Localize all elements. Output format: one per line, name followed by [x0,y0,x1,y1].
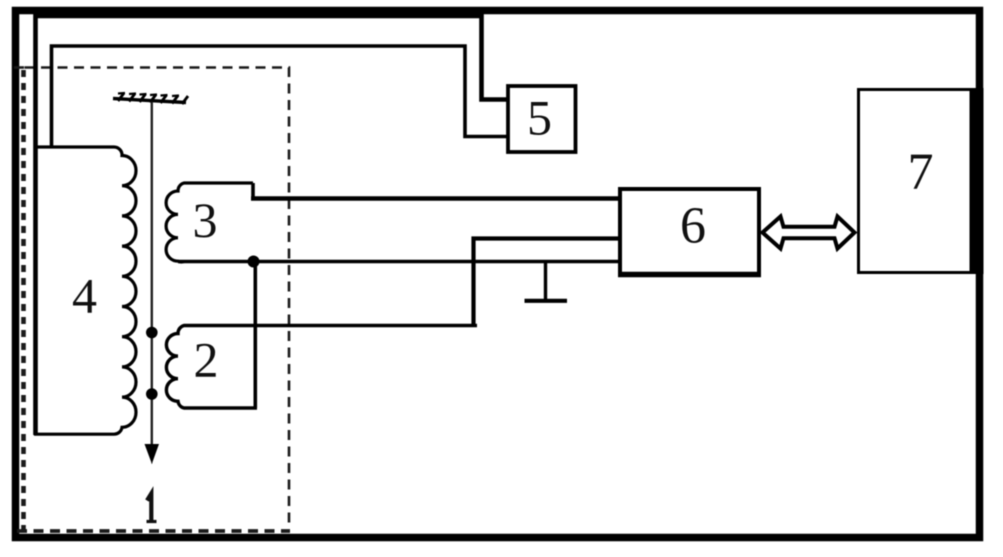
node: junction dot on coil3 bottom wire [248,256,260,268]
movable core rod [151,102,153,448]
box 7 right edge merged with frame [970,88,984,274]
ground stem [544,262,547,300]
bidirectional arrow between box 6 and box 7 [763,217,855,249]
svg-text:4: 4 [72,268,97,324]
wire: coil3 top to box 6 input 1 (thick) [251,196,620,201]
box 6 [620,189,759,274]
wire B: coil4 top to box 5 lower input [52,46,509,147]
label 1 [147,494,151,523]
dashed enclosure [14,68,290,532]
fixed support hatching [113,93,188,104]
ground bar [525,299,568,303]
coil 4 (primary winding) [34,147,136,434]
wire: coil3 bottom to box 6 input 3 [178,260,620,264]
svg-text:6: 6 [680,198,706,255]
wire: junction down to coil2 bottom [254,262,258,409]
box 7 [859,90,976,273]
box 5 [508,86,576,152]
coil 2 (lower secondary) [166,326,477,409]
rod junction dot upper [146,327,158,339]
svg-text:5: 5 [527,90,552,146]
svg-text:7: 7 [908,144,934,201]
svg-text:3: 3 [193,192,218,248]
wire: coil2 top riser to box 6 input 2 [474,239,621,328]
coil 3 (upper secondary) [166,183,253,262]
wire A: coil4 left to top border, across to box 5 upper input [36,16,509,435]
svg-text:2: 2 [194,332,219,388]
rod arrowhead [145,444,160,464]
box 6 thick bottom edge [618,272,761,278]
wire: coil3 top jog down [251,183,255,199]
rod junction dot lower [146,388,158,400]
